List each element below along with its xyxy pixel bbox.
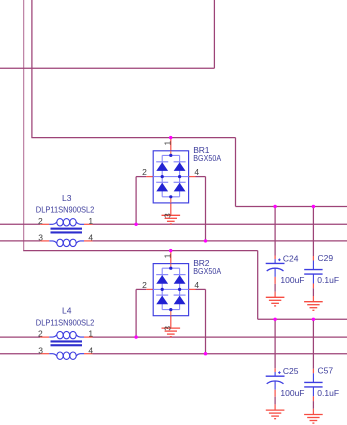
capacitor C57 plate 1 (304, 381, 322, 383)
wire top bus y=137.6 (to BR1 pin1) (31, 137, 235, 139)
capacitor C24 curved bottom plate (267, 268, 284, 271)
bus E horizontal y=319.3 (258, 318, 347, 320)
bridge rectifier BR1 outline (153, 151, 188, 203)
svg-text:L4: L4 (62, 306, 72, 316)
capacitor C29 bottom pin (312, 274, 314, 283)
wire B right segment (L3 pin1 net) (93, 223, 347, 225)
junction dot wire G / BR2 pin4 (204, 352, 207, 355)
capacitor C24 wire to ground (274, 284, 276, 292)
junction dot bus E / C57 (312, 318, 315, 321)
svg-text:4: 4 (194, 167, 199, 177)
svg-text:BGX50A: BGX50A (193, 153, 221, 163)
junction dot bus A / C29 (312, 205, 315, 208)
capacitor C25 plus sign (278, 372, 281, 374)
capacitor C24 pin into plate (274, 259, 276, 263)
junction dot bus A / C24 (273, 205, 276, 208)
wire top box right edge (x=214.4) (213, 0, 215, 68)
wire F right segment (L4 pin1 net) (93, 336, 347, 338)
svg-text:4: 4 (194, 280, 199, 290)
ground below C29 (304, 302, 323, 311)
capacitor C29 top pin (312, 256, 314, 261)
capacitor C57 top pin (312, 369, 314, 374)
svg-text:3: 3 (38, 345, 43, 355)
bus A horizontal y=206.5 (236, 206, 347, 208)
svg-text:0.1uF: 0.1uF (317, 388, 339, 398)
capacitor C25 top plate (266, 375, 285, 377)
capacitor C25 pin into plate (274, 372, 276, 376)
svg-text:1: 1 (88, 216, 93, 226)
junction dot wire B / BR1 pin2 (134, 223, 137, 226)
svg-text:3: 3 (38, 233, 43, 243)
BR2 pin 2 wire (136, 288, 146, 290)
inductor L4 core bars (51, 340, 83, 342)
capacitor C29 top connection wire (312, 207, 314, 257)
svg-text:3: 3 (163, 326, 173, 331)
BR2 pin 3 wire to ground (170, 316, 172, 328)
BR1 pin 1 wire from bus (170, 138, 172, 151)
BR1 diode bottom-right (174, 181, 186, 183)
ground below BR2 (162, 328, 181, 337)
svg-text:C29: C29 (318, 253, 334, 263)
junction dot wire C / BR1 pin4 (204, 239, 207, 242)
capacitor C24 top connection wire (274, 207, 276, 256)
svg-text:BGX50A: BGX50A (193, 266, 221, 276)
capacitor C57 wire to ground (312, 401, 314, 409)
capacitor C24 top pin (274, 256, 276, 260)
BR1 internal rails and columns (162, 154, 179, 156)
wire F left segment (L4 pin2 net) (0, 336, 40, 338)
BR1 diode bottom-left (156, 181, 168, 183)
capacitor C29 plate 2 (304, 273, 322, 275)
capacitor C57 top connection wire (312, 319, 314, 369)
BR1 diode top-left (156, 161, 168, 163)
wire G left segment (L4 pin3 net) (0, 353, 40, 355)
capacitor C25 bottom pin (274, 381, 276, 390)
svg-text:100uF: 100uF (280, 388, 304, 398)
inductor L3 top winding loops (57, 219, 63, 226)
BR2 pin 1 wire from wire D (170, 251, 172, 264)
inductor L3 core bars (51, 228, 83, 230)
capacitor C25 curved bottom plate (267, 381, 284, 384)
wire C left segment (L3 pin3 net) (0, 240, 40, 242)
ground below C24 (266, 297, 285, 306)
svg-text:1: 1 (163, 141, 173, 146)
BR2 diode top-right (174, 274, 186, 276)
svg-text:0.1uF: 0.1uF (317, 275, 339, 285)
junction dot bus / BR1 pin1 (169, 136, 172, 139)
ground below C25 (266, 410, 285, 419)
capacitor C57 bottom pin (312, 387, 314, 396)
inductor L3 top winding pin stubs (40, 223, 49, 225)
wire top box bottom edge (y=68.3) (0, 67, 214, 69)
capacitor C25 wire to ground (274, 397, 276, 405)
capacitor C57 plate 2 (304, 386, 322, 388)
wire B left segment (L3 pin2 net) (0, 223, 40, 225)
BR1 node dots (169, 154, 172, 157)
svg-text:C57: C57 (318, 366, 334, 376)
svg-text:2: 2 (38, 216, 43, 226)
BR1 pin 4 wire (189, 176, 196, 178)
junction dot wire D / BR2 pin1 (169, 249, 172, 252)
capacitor C57 pin into plate (312, 373, 314, 382)
capacitor C24 plus sign (278, 259, 281, 261)
wire vertical net at x=31.9 from top (31, 0, 33, 138)
svg-text:1: 1 (163, 253, 173, 258)
svg-text:2: 2 (142, 280, 147, 290)
BR2 internal rails and columns (162, 267, 179, 269)
wire C right segment (L3 pin4 net) (93, 240, 347, 242)
inductor L4 bottom winding pin stubs (40, 353, 49, 355)
svg-text:3: 3 (163, 213, 173, 218)
ground below C57 (304, 415, 323, 424)
BR1 pin 4 vertical to wire C (205, 177, 207, 241)
svg-text:100uF: 100uF (280, 275, 304, 285)
capacitor C24 top plate (266, 262, 285, 264)
BR2 pin 4 vertical to wire G (205, 289, 207, 353)
svg-text:DLP11SN900SL2: DLP11SN900SL2 (36, 205, 95, 215)
wire vertical x=235.5 down to bus A (235, 138, 237, 207)
inductor L3 bottom winding pin stubs (40, 240, 49, 242)
svg-text:DLP11SN900SL2: DLP11SN900SL2 (36, 317, 95, 327)
svg-text:1: 1 (88, 329, 93, 339)
bridge rectifier BR2 outline (153, 264, 188, 316)
wire vertical x=257.7 down to bus E (257, 251, 259, 320)
inductor L3 bottom winding loops (57, 239, 63, 246)
BR2 pin 2 vertical to wire F (135, 289, 137, 337)
inductor L4 bottom winding loops (57, 352, 63, 359)
capacitor C29 wire to ground (312, 288, 314, 296)
capacitor C29 pin into plate (312, 261, 314, 270)
junction dot bus E / C25 (273, 318, 276, 321)
capacitor C25 top connection wire (274, 319, 276, 368)
svg-text:4: 4 (88, 345, 93, 355)
BR2 node dots (169, 267, 172, 270)
junction dot wire F / BR2 pin2 (134, 335, 137, 338)
BR1 diode top-right (174, 161, 186, 163)
svg-text:L3: L3 (62, 193, 72, 203)
BR1 pin 2 wire (136, 176, 146, 178)
inductor L4 top winding loops (57, 331, 63, 338)
inductor L4 top winding pin stubs (40, 336, 49, 338)
wire D horizontal y=250.6 (to BR2 pin1 and right) (23, 250, 258, 252)
svg-text:2: 2 (38, 329, 43, 339)
BR2 pin 4 wire (189, 288, 196, 290)
svg-text:4: 4 (88, 233, 93, 243)
ground below BR1 (162, 215, 181, 224)
capacitor C29 plate 1 (304, 269, 322, 271)
capacitor C24 bottom pin (274, 268, 276, 277)
capacitor C25 top pin (274, 368, 276, 372)
svg-text:2: 2 (142, 167, 147, 177)
BR2 diode bottom-left (156, 294, 168, 296)
BR1 pin 2 vertical to wire B (135, 177, 137, 225)
wire vertical net at x=23.7 from top (23, 0, 25, 251)
BR2 diode top-left (156, 274, 168, 276)
BR1 pin 3 wire to ground (170, 203, 172, 215)
wire G right segment (L4 pin4 net) (93, 353, 347, 355)
BR2 diode bottom-right (174, 294, 186, 296)
svg-text:C24: C24 (283, 253, 299, 263)
svg-text:C25: C25 (283, 366, 299, 376)
